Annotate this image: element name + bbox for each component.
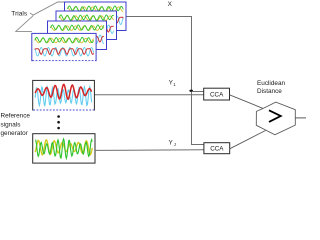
wire YJ from reference box 2 to CCA2: [95, 149, 204, 152]
wire CCA2 to comparator: [230, 131, 266, 149]
node junction dot on X line: [189, 90, 193, 92]
CCA block U2: [204, 143, 230, 154]
svg-text:Y: Y: [169, 139, 173, 146]
comparator hexagon: [256, 102, 295, 135]
CCA block U1: [204, 88, 230, 100]
svg-text:Trials: Trials: [11, 10, 28, 17]
trial box 3: [48, 21, 107, 50]
comparator symbol >: [269, 110, 281, 122]
brace pointing to trial stack: [16, 2, 65, 31]
svg-text:generator: generator: [1, 130, 29, 137]
svg-text:Reference: Reference: [1, 113, 31, 120]
wire output: [295, 117, 306, 119]
svg-text:J: J: [174, 142, 176, 147]
wire X from trial stack with corner down to CCA2: [127, 17, 204, 145]
svg-text:Euclidean: Euclidean: [257, 80, 286, 87]
wire Y1 from reference box 1 to CCA1: [94, 94, 203, 96]
reference signal box 2: [33, 134, 95, 163]
wire CCA1 to comparator: [230, 95, 264, 109]
wire X branch into CCA1: [192, 91, 204, 93]
trial box 4: [32, 33, 96, 60]
svg-text:CCA: CCA: [210, 146, 224, 153]
svg-text:Distance: Distance: [257, 88, 282, 95]
trial box 1: [65, 2, 127, 31]
svg-text:signals: signals: [1, 121, 21, 128]
svg-text:X: X: [168, 1, 173, 8]
reference signal box 1: [33, 80, 95, 110]
vertical ellipsis between reference boxes: [57, 115, 60, 118]
trial box 2: [56, 11, 117, 40]
svg-text:CCA: CCA: [210, 92, 224, 99]
